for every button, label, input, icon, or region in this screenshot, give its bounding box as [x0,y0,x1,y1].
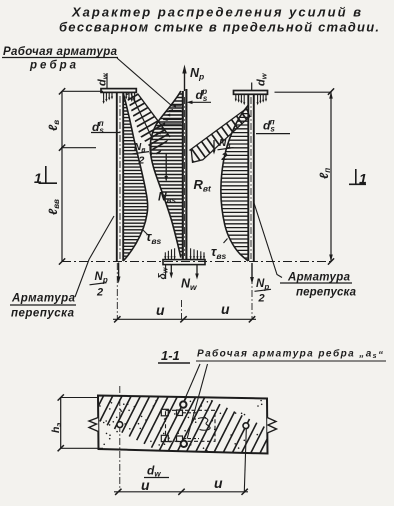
concrete dots [99,400,262,452]
reaction arrow Np/2 left [117,263,121,284]
title line 2 [59,20,379,35]
dimension u u (bottom) [114,475,248,495]
svg-text:Характер распределения усили: Характер распределения усилий в [71,5,361,20]
svg-text:u: u [156,302,165,318]
label dw left (rotated) [97,72,110,89]
svg-text:Арматура: Арматура [287,272,351,284]
svg-text:u: u [141,477,150,493]
right break mark [267,418,276,434]
svg-text:ребра: ребра [29,60,77,72]
label lv (rotated) [46,120,61,131]
label ds_n right [256,118,290,134]
label: rabochaya armatura rebra [2,46,118,72]
force arrow at left strut end [149,144,152,158]
leader line from label to rib [117,58,172,106]
svg-text:2: 2 [138,155,145,167]
force arrow in right strut [212,140,215,155]
force arrow Np (up) [182,65,186,92]
section mark 1 left [34,166,57,186]
svg-text:2: 2 [96,287,103,299]
leader left [75,216,114,297]
squiggle mark [198,418,210,430]
svg-text:2: 2 [258,293,265,305]
label ds_n left [91,119,121,135]
right diagonal compression strut (hatched) [162,85,276,182]
bottom axis line (dash-dot) [62,261,331,263]
dimension line lp (right) [275,88,335,264]
dimension line lv / lvv (left) [59,88,103,265]
bond arrows at crescent top [156,105,181,135]
rib bars in section: dashed outline [161,409,215,441]
svg-text:Рабочая арматура: Рабочая арматура [3,46,118,58]
label rabochaya armatura rebra as [196,348,386,362]
svg-text:бессварном стыке в предельн: бессварном стыке в предельной стадии. [59,20,379,35]
title line 1 [71,5,361,20]
label lp (rotated) [317,168,332,179]
svg-text:dsр: dsр [196,87,208,103]
rib bar circles (section) [180,401,186,407]
svg-text:перепуска: перепуска [11,308,75,320]
label armatura perepuska right [280,272,357,299]
label Nb/2 left [133,142,150,167]
label dw right (rotated) [256,72,269,86]
left diagonal compression strut (hatched) [91,59,198,185]
label delta_w (rotated) [157,265,170,280]
reaction arrow Np/2 right [250,263,254,284]
left splice bar section (circle) [117,386,123,492]
svg-text:1: 1 [34,170,42,186]
left anchor plate [101,89,136,104]
concrete section outline [98,396,268,454]
svg-text:1-1: 1-1 [161,348,180,363]
svg-text:dsп: dsп [263,118,275,134]
label Np [190,66,204,82]
svg-text:Арматура: Арматура [11,293,76,305]
svg-text:u: u [214,475,223,491]
label Nbs [158,190,177,206]
section title 1-1 [158,348,190,363]
label tau_bs left [143,229,162,246]
concrete hatching [63,341,301,506]
label Nb/2 right [218,138,234,163]
label Np/2 right [255,278,272,305]
right splice bar section (circle) + leader [243,423,249,492]
rib force diagram Nbs (crescent) [148,91,183,258]
left lap-splice bar [117,93,123,262]
label h_e (rotated) [50,423,63,433]
left break mark [89,418,98,432]
label Rbt [194,177,213,194]
dimension u u (top) [113,263,256,322]
label Nw [181,277,198,293]
label Np/2 left [90,271,108,299]
leader right [254,203,282,278]
svg-text:перепуска: перепуска [296,287,357,299]
svg-text:Рабочая арматура ребра „аs“: Рабочая арматура ребра „аs“ [197,348,383,362]
leader lines to rib bars [184,364,200,401]
central rib reinforcement bar [183,89,187,260]
label armatura perepuska left [10,293,76,320]
label dw (below section) [144,464,169,479]
svg-text:u: u [221,301,230,317]
section mark 1 right [349,169,367,187]
right anchor plate [234,91,268,106]
force arrow Nbs [165,154,168,183]
label tau_bs right [211,239,228,262]
right lap-splice bar [248,83,254,262]
label lvv (rotated) [46,199,61,215]
label ds_p with arrow [187,87,212,104]
svg-text:1: 1 [359,171,367,187]
bond stress diagram on left bar (lens) [116,93,150,261]
bond stress diagram on right bar (lens) [218,106,250,262]
dimension h (left of section) [58,394,103,451]
rib bottom anchor plate [163,248,205,264]
force arrows Nw [170,265,174,279]
